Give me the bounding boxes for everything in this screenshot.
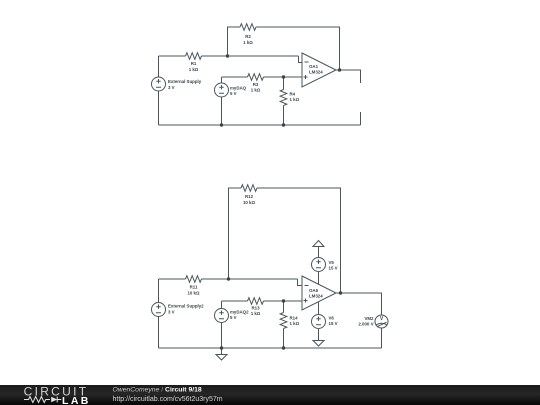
svg-text:1 kΩ: 1 kΩ [251, 88, 261, 93]
svg-text:myDAQ2: myDAQ2 [230, 310, 249, 315]
svg-text:External Supply: External Supply [168, 79, 202, 84]
svg-text:1 kΩ: 1 kΩ [290, 97, 300, 102]
svg-text:OA1: OA1 [309, 64, 319, 69]
svg-text:R12: R12 [245, 194, 254, 199]
svg-text:15 V: 15 V [329, 321, 338, 326]
svg-text:http://circuitlab.com/cv56t2u3: http://circuitlab.com/cv56t2u3ry57m [113, 396, 223, 403]
svg-text:15 V: 15 V [329, 266, 338, 271]
svg-text:V5: V5 [329, 260, 335, 265]
svg-text:R13: R13 [251, 306, 260, 311]
svg-text:LM324: LM324 [309, 294, 323, 299]
svg-text:R1: R1 [191, 61, 197, 66]
svg-text:3 V: 3 V [168, 85, 175, 90]
svg-text:R3: R3 [253, 82, 259, 87]
svg-text:R4: R4 [290, 92, 296, 97]
svg-text:1 kΩ: 1 kΩ [189, 67, 199, 72]
svg-text:LAB: LAB [62, 395, 91, 405]
svg-text:R14: R14 [290, 316, 299, 321]
svg-text:1 kΩ: 1 kΩ [290, 321, 300, 326]
svg-text:VM2: VM2 [364, 316, 374, 321]
svg-text:R11: R11 [190, 285, 198, 290]
svg-text:myDAQ: myDAQ [230, 86, 247, 91]
svg-text:3 V: 3 V [168, 310, 175, 315]
svg-text:2.000 V: 2.000 V [358, 322, 373, 327]
svg-text:1 kΩ: 1 kΩ [251, 311, 261, 316]
svg-text:OwenComeyne / Circuit 9/18: OwenComeyne / Circuit 9/18 [113, 386, 202, 393]
svg-text:External Supply2: External Supply2 [168, 304, 204, 309]
svg-text:OA6: OA6 [309, 288, 319, 293]
svg-text:V6: V6 [329, 316, 335, 321]
svg-text:LM324: LM324 [309, 70, 323, 75]
svg-text:1 kΩ: 1 kΩ [243, 40, 253, 45]
svg-text:10 kΩ: 10 kΩ [187, 291, 200, 296]
svg-text:5 V: 5 V [230, 91, 237, 96]
svg-text:5 V: 5 V [230, 315, 237, 320]
svg-text:10 kΩ: 10 kΩ [243, 200, 256, 205]
svg-text:R2: R2 [245, 34, 251, 39]
